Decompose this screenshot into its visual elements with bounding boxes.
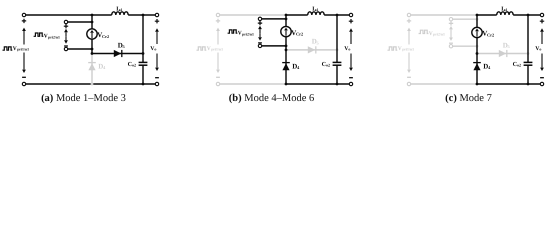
- svg-text:o1: o1: [504, 8, 508, 12]
- svg-text:o2: o2: [132, 63, 136, 68]
- svg-text:o2: o2: [517, 63, 521, 68]
- svg-text:o: o: [539, 47, 541, 52]
- svg-text:5: 5: [508, 44, 510, 49]
- svg-text:o2: o2: [326, 63, 330, 68]
- svg-text:(b) Mode 4–Mode 6: (b) Mode 4–Mode 6: [229, 93, 314, 104]
- svg-text:Cr2: Cr2: [296, 31, 303, 36]
- svg-text:o1: o1: [119, 8, 123, 12]
- svg-text:o: o: [348, 47, 350, 52]
- svg-text:o1: o1: [315, 8, 319, 12]
- svg-text:5: 5: [123, 44, 125, 49]
- svg-text:pri1/n1: pri1/n1: [17, 48, 29, 52]
- svg-text:V: V: [429, 31, 433, 37]
- svg-text:V: V: [398, 46, 402, 52]
- svg-text:o: o: [154, 47, 156, 52]
- svg-text:V: V: [13, 46, 17, 52]
- svg-text:Cr2: Cr2: [487, 32, 494, 37]
- svg-text:(c) Mode 7: (c) Mode 7: [445, 93, 492, 104]
- svg-text:V: V: [44, 34, 48, 40]
- svg-text:V: V: [207, 46, 211, 52]
- svg-text:pri2/n1: pri2/n1: [433, 33, 445, 37]
- svg-text:pri1/n1: pri1/n1: [211, 48, 223, 52]
- svg-text:Cr2: Cr2: [102, 34, 109, 39]
- svg-text:pri2/n1: pri2/n1: [242, 32, 254, 36]
- svg-text:V: V: [238, 31, 242, 37]
- svg-text:5: 5: [317, 40, 319, 45]
- svg-text:pri1/n1: pri1/n1: [402, 48, 414, 52]
- svg-text:pri2/n1: pri2/n1: [48, 35, 60, 39]
- svg-text:(a) Mode 1–Mode 3: (a) Mode 1–Mode 3: [41, 93, 126, 104]
